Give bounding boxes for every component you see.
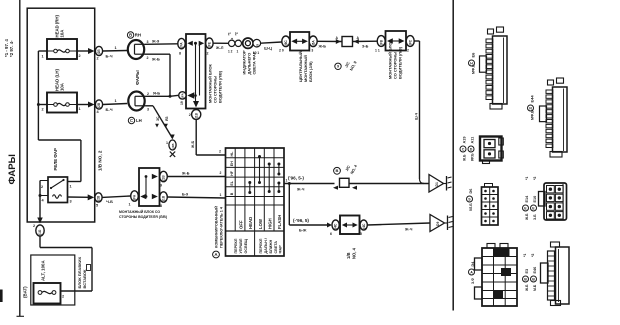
connector 8(FA): [178, 38, 185, 55]
svg-text:Ж.Б: Ж.Б: [525, 284, 529, 292]
svg-text:1/B: 1/B: [346, 252, 351, 259]
connector 20(6C): [279, 36, 290, 53]
high beam indicator lamp: [242, 38, 254, 48]
svg-text:Ж-Б: Ж-Б: [318, 45, 327, 49]
wire 9-1B to switch: [167, 171, 225, 177]
svg-text:(2B: (2B: [171, 143, 175, 149]
svg-text:B: B: [524, 277, 527, 281]
connector 4(2B) LH: [95, 100, 102, 114]
junction block 1/B NO.4: [340, 216, 360, 235]
wire relay to ground bus: [37, 181, 43, 224]
svg-text:2 0: 2 0: [279, 49, 284, 53]
label (B) RH: [127, 32, 141, 38]
svg-text:*2: *2: [235, 32, 239, 35]
connector 2(2B) RH: [95, 46, 102, 60]
svg-text:Б-Ж: Б-Ж: [299, 229, 307, 233]
svg-text:Б-Ч: Б-Ч: [106, 54, 113, 59]
junction block driver side lower: [139, 168, 160, 206]
svg-text:C: C: [130, 118, 133, 123]
svg-text:B: B: [336, 168, 339, 173]
label E44: [528, 95, 535, 120]
svg-text:1: 1: [220, 193, 222, 197]
ground D1: [429, 175, 452, 193]
svg-text:РЕЛЕ ФАР: РЕЛЕ ФАР: [53, 148, 58, 170]
label D6: [467, 189, 474, 211]
connector 1(FA) relay side: [129, 191, 139, 207]
label HEAD (LH) 10A: [55, 68, 65, 91]
svg-text:B: B: [129, 33, 132, 38]
label HEAD (RH) 10A: [55, 14, 65, 37]
svg-text:2: 2: [219, 150, 221, 154]
svg-text:1: 1: [237, 50, 239, 54]
label E14: [523, 177, 530, 221]
svg-text:1: 1: [115, 99, 117, 103]
svg-text:3: 3: [147, 108, 149, 112]
wire to RH bulb: [103, 46, 127, 59]
label E6: [469, 52, 476, 74]
headlight bulb LH: [128, 92, 149, 112]
svg-text:1/B NO, 2: 1/B NO, 2: [98, 150, 103, 171]
svg-text:(FA: (FA: [180, 42, 184, 48]
svg-text:A19: A19: [463, 137, 467, 144]
svg-text:2: 2: [41, 185, 43, 189]
svg-text:9: 9: [160, 184, 162, 188]
svg-text:HIGH: HIGH: [268, 218, 273, 229]
svg-text:2: 2: [33, 224, 35, 228]
svg-text:LH: LH: [136, 118, 142, 123]
svg-text:(2B: (2B: [97, 102, 101, 108]
svg-text:*1: *1: [228, 32, 232, 35]
svg-text:2: 2: [62, 295, 64, 299]
wire fuse bus: [37, 51, 81, 182]
svg-text:Ж-Л: Ж-Л: [215, 46, 224, 50]
fusible link block enclosure: [31, 255, 75, 305]
label E46: [531, 254, 538, 291]
svg-text:1: 1: [129, 203, 131, 207]
svg-text:ДАЛЬН /: ДАЛЬН /: [264, 238, 268, 253]
svg-text:М.Б: М.Б: [533, 284, 537, 291]
svg-text:Ж-Б: Ж-Б: [191, 141, 195, 149]
label A11: [468, 137, 475, 161]
svg-text:D1: D1: [435, 182, 439, 186]
wire to LH bulb: [103, 99, 128, 112]
svg-text:БЛОК (J/B): БЛОК (J/B): [308, 61, 313, 82]
label (BAT): [23, 286, 28, 298]
svg-text:A: A: [470, 270, 473, 274]
svg-text:(6A: (6A: [311, 40, 315, 46]
svg-text:ПЕРЕКЛЮЧАТЕЛЬ 1 4: ПЕРЕКЛЮЧАТЕЛЬ 1 4: [220, 206, 224, 248]
svg-text:E6: E6: [471, 52, 476, 58]
svg-text:(1G: (1G: [38, 229, 42, 235]
wire RH low-beam: [145, 54, 170, 97]
svg-text:HL: HL: [230, 151, 234, 157]
connector pinout E3 E46: [541, 242, 570, 306]
svg-text:СВЕТА ФАР: СВЕТА ФАР: [252, 51, 257, 74]
svg-text:1 1: 1 1: [375, 49, 380, 53]
svg-text:З.Б: З.Б: [533, 214, 537, 220]
connector 19(FA): [179, 92, 186, 105]
right section divider: [452, 0, 454, 311]
svg-text:10A: 10A: [60, 83, 65, 91]
svg-text:(2B: (2B: [97, 195, 101, 201]
label fusible link block: [77, 256, 91, 288]
connector pinout E44: [540, 78, 568, 157]
svg-text:(1B: (1B: [194, 112, 198, 118]
svg-text:5: 5: [96, 204, 98, 208]
connector 6(4C): [327, 220, 339, 236]
footnote *1 *2: [4, 39, 14, 57]
connector pinout A19 A11: [480, 137, 503, 164]
svg-text:D: D: [470, 147, 473, 151]
wire J/B to J/C: [317, 41, 342, 48]
svg-text:МФ.Б: МФ.Б: [531, 110, 535, 120]
svg-text:2: 2: [220, 171, 222, 175]
connector 5(2B) relay out: [95, 193, 102, 208]
svg-text:E10: E10: [533, 196, 537, 203]
fuse HEAD (RH) 10A: [42, 39, 81, 59]
label КОМБИНИРОВАННЫЙ ПЕРЕКЛЮЧАТЕЛЬ: [213, 206, 224, 258]
svg-text:9: 9: [337, 65, 339, 69]
svg-text:(4C: (4C: [362, 223, 366, 229]
svg-text:D6: D6: [469, 189, 473, 194]
fuse HEAD (LH) 10A: [42, 93, 81, 113]
svg-text:NO, 4: NO, 4: [352, 247, 357, 259]
svg-text:Б-9: Б-9: [182, 193, 188, 197]
connector 13(6A): [309, 36, 318, 53]
title ФАРЫ: [7, 154, 18, 184]
svg-text:Ж-Б: Ж-Б: [151, 57, 160, 62]
svg-text:C: C: [462, 147, 465, 151]
wire RH high-beam: [145, 39, 178, 45]
svg-text:(1B: (1B: [162, 195, 166, 201]
connector A(2B): [166, 135, 176, 157]
svg-text:(1B: (1B: [162, 175, 166, 181]
label J/C NO.9: [335, 59, 358, 71]
svg-text:2: 2: [97, 57, 99, 61]
wire to 1FA: [102, 196, 131, 204]
svg-text:Ж-Б: Ж-Б: [181, 172, 190, 176]
wire branch down to 1/B NO.4: [288, 182, 328, 233]
ground D9: [430, 215, 453, 232]
connector pinout E14 E10: [539, 183, 567, 220]
label 1/B NO.2: [98, 150, 103, 171]
svg-text:HEAD: HEAD: [248, 217, 253, 229]
junction connector J/C NO.4: [333, 178, 429, 190]
svg-text:*1: *1: [525, 177, 529, 180]
svg-text:Ж-Ч: Ж-Ч: [296, 188, 305, 192]
svg-text:ALT, 100A: ALT, 100A: [41, 260, 46, 281]
combination switch contact table: [226, 148, 285, 256]
connector 8(1B): [160, 192, 168, 208]
svg-text:E14: E14: [525, 195, 529, 203]
svg-text:3: 3: [147, 40, 149, 44]
junction block passenger side: [386, 31, 407, 51]
svg-text:(4C: (4C: [334, 223, 338, 229]
svg-text:RH: RH: [135, 33, 141, 38]
svg-text:Ш-Ч: Ш-Ч: [415, 112, 419, 120]
svg-text:1: 1: [79, 107, 81, 111]
svg-text:ОСВЕЩ: ОСВЕЩ: [244, 239, 248, 254]
svg-text:('96, 5-): ('96, 5-): [288, 176, 304, 181]
svg-text:A11: A11: [471, 137, 475, 144]
svg-text:(FA: (FA: [133, 194, 137, 200]
wire LH high-beam: [146, 91, 179, 98]
connector 2(1G): [33, 224, 44, 236]
central junction block J/B: [290, 32, 309, 51]
svg-text:8: 8: [160, 204, 162, 208]
connector pinout D6: [482, 184, 499, 226]
label ALT 100A: [41, 260, 46, 281]
connector 1B bottom: [189, 110, 201, 120]
svg-text:Ч-Б: Ч-Б: [106, 199, 113, 204]
svg-text:Ж.Б: Ж.Б: [525, 213, 529, 221]
svg-text:EH: EH: [230, 161, 234, 166]
svg-text:1: 1: [166, 141, 168, 145]
svg-text:1: 1: [70, 185, 72, 189]
svg-text:8: 8: [179, 52, 181, 56]
svg-text:6: 6: [330, 232, 332, 236]
junction connector J/C NO.9: [336, 36, 360, 47]
svg-text:HF: HF: [230, 170, 234, 176]
svg-text:(-'96, 5): (-'96, 5): [293, 218, 309, 223]
svg-text:*2: *2: [531, 254, 535, 257]
label 1/B NO.4: [346, 247, 357, 259]
svg-text:E3: E3: [525, 269, 529, 274]
svg-text:H: H: [470, 61, 473, 65]
svg-text:ФАРЫ: ФАРЫ: [7, 154, 18, 184]
svg-text:5Л.Б: 5Л.Б: [469, 203, 473, 211]
svg-text:БЛИЖН: БЛИЖН: [269, 239, 273, 253]
svg-text:LOW: LOW: [258, 218, 263, 229]
svg-text:2: 2: [79, 54, 81, 58]
svg-text:Ж-Ч: Ж-Ч: [404, 228, 413, 232]
svg-text:Ш-Ц: Ш-Ц: [264, 47, 272, 51]
label D4: [469, 261, 476, 284]
junction block 1/B NO.2 enclosure: [27, 8, 95, 222]
wire 8-1B to switch: [167, 193, 225, 199]
label (C) LH: [128, 117, 141, 123]
junction block driver side (L/B): [186, 34, 206, 109]
label МОНТАЖНЫЙ БЛОК СО СТОРОНЫ ВОДИТЕЛЯ: [119, 210, 167, 219]
svg-text:5: 5: [360, 232, 362, 236]
connector at indicator: [253, 39, 261, 55]
scan smudge bottom-left: [0, 290, 3, 303]
svg-text:(BAT): (BAT): [23, 286, 28, 298]
svg-text:3: 3: [70, 200, 72, 204]
wire to ground D9: [367, 223, 430, 232]
svg-text:Б-Ч: Б-Ч: [106, 107, 113, 112]
svg-text:2: 2: [147, 92, 149, 96]
connector pinout D4: [475, 244, 518, 307]
svg-text:*1: *1: [523, 254, 527, 257]
svg-text:(FC: (FC: [408, 39, 412, 45]
svg-text:(6C: (6C: [284, 40, 288, 46]
label ПЕРЕКЛ УПРАВЛ ОСВЕЩ: [234, 238, 248, 253]
splice *1: [228, 32, 235, 53]
svg-text:(FE: (FE: [208, 42, 212, 47]
label E3: [523, 254, 530, 292]
left margin rule: [17, 0, 25, 316]
svg-text:N: N: [529, 106, 532, 110]
svg-text:2: 2: [147, 56, 149, 60]
svg-text:ВОДИТЕЛЯ (Л/В): ВОДИТЕЛЯ (Л/В): [218, 70, 223, 103]
splice *2: [235, 32, 242, 53]
wire J/C to passenger J/B: [353, 41, 378, 48]
svg-text:*2: *2: [533, 177, 537, 180]
svg-text:ВСТАВОК: ВСТАВОК: [82, 269, 87, 289]
connector pinout E6: [480, 27, 508, 109]
svg-text:(FB: (FB: [379, 39, 383, 45]
svg-text:ЯЗ: ЯЗ: [165, 116, 169, 121]
fusible link ALT 100A: [34, 283, 65, 304]
svg-text:З.Ф: З.Ф: [471, 278, 475, 284]
svg-text:СТОРОНЫ ВОДИТЕЛЯ (Л/В): СТОРОНЫ ВОДИТЕЛЯ (Л/В): [119, 215, 167, 219]
label ЦЕНТРАЛЬНЫЙ МОНТАЖНЫЙ БЛОК (J/B): [298, 51, 313, 82]
label МОНТАЖНЫЙ БЛОК СО СТОРОНЫ (L/B): [388, 40, 403, 79]
connector 2(FC): [406, 36, 414, 53]
svg-text:З-Б: З-Б: [362, 45, 369, 49]
svg-text:OFF: OFF: [238, 220, 243, 229]
wire to fusible link: [40, 236, 92, 291]
wire fuse LH to bulb: [77, 102, 95, 108]
connector 2(FE): [206, 38, 213, 56]
label ФАРЫ bulbs: [135, 70, 140, 85]
svg-text:(FA: (FA: [181, 93, 185, 98]
svg-text:ФАРЫ: ФАРЫ: [135, 70, 140, 85]
svg-text:(9: (9: [255, 44, 259, 47]
svg-text:ПЕРЕКЛ: ПЕРЕКЛ: [259, 238, 263, 253]
relay РЕЛЕ ФАР: [40, 177, 72, 204]
svg-text:ЯР.Б: ЯР.Б: [471, 153, 475, 161]
svg-text:B: B: [532, 277, 535, 281]
svg-text:2: 2: [207, 52, 209, 56]
label МОНТАЖНЫЙ БЛОК СО СТОРОНЫ ВОДИТЕЛЯ (L/B): [208, 64, 223, 103]
svg-text:ВОДИТЕЛЯ (Л/В): ВОДИТЕЛЯ (Л/В): [398, 46, 403, 79]
svg-text:FLASH: FLASH: [277, 215, 282, 229]
svg-text:19: 19: [180, 101, 184, 105]
note (96,5-): [288, 176, 304, 181]
connector 11(FB): [375, 36, 385, 53]
wire 2FE to indicator: [213, 43, 228, 50]
svg-text:2: 2: [407, 49, 409, 53]
label РЕЛЕ ФАР: [53, 148, 58, 170]
wire relay to 1FA: [68, 194, 95, 200]
svg-text:E46: E46: [533, 267, 537, 274]
svg-text:10A: 10A: [60, 30, 65, 38]
svg-text:1: 1: [115, 46, 117, 50]
svg-text:D9: D9: [436, 222, 440, 226]
svg-text:УПРАВЛ: УПРАВЛ: [239, 238, 243, 253]
svg-text:ЗС: ЗС: [156, 116, 160, 121]
svg-text:2: 2: [189, 113, 191, 117]
wire LH low-beam to dimmer: [146, 106, 173, 138]
svg-text:1: 1: [42, 55, 44, 59]
svg-text:E44: E44: [530, 95, 535, 103]
svg-text:СВЕТА: СВЕТА: [274, 241, 278, 254]
svg-text:(2B: (2B: [97, 49, 101, 55]
svg-text:КОМБИНИРОВАННЫЙ: КОМБИНИРОВАННЫЙ: [215, 206, 219, 248]
label A19: [460, 137, 467, 162]
svg-text:Ж-9: Ж-9: [151, 39, 160, 44]
label ИНДИКАТОР ДАЛЬНЕГО СВЕТА ФАР: [242, 50, 257, 74]
svg-text:1 2: 1 2: [228, 50, 233, 54]
wire indicator to central J/B: [261, 42, 282, 51]
svg-text:B: B: [230, 192, 234, 195]
wire 2FC down to ground D1: [414, 41, 424, 184]
svg-text:12: 12: [230, 37, 234, 41]
svg-text:Я-Б: Я-Б: [153, 91, 160, 96]
connector 9(1B): [160, 171, 168, 187]
headlight bulb RH: [128, 40, 149, 60]
svg-text:ПЕРЕКЛ: ПЕРЕКЛ: [234, 238, 238, 253]
connector 4C right: [360, 220, 367, 236]
svg-text:Ж.Б: Ж.Б: [463, 154, 467, 162]
svg-text:*2 97. 4-: *2 97. 4-: [9, 40, 14, 57]
svg-text:EL: EL: [230, 180, 234, 185]
svg-text:1 3: 1 3: [309, 49, 314, 53]
svg-text:МОНТАЖНЫЙ БЛОК СО: МОНТАЖНЫЙ БЛОК СО: [119, 210, 160, 214]
svg-text:2: 2: [42, 108, 44, 112]
label ПЕРЕКЛ ДАЛЬН БЛИЖН СВЕТА ФАР: [259, 238, 283, 253]
label E10: [531, 177, 538, 220]
svg-text:ФАР: ФАР: [279, 245, 283, 254]
label J/C NO.4: [334, 164, 359, 175]
wire switch to J/C NO.4: [284, 179, 335, 192]
wire fuse RH to bulb: [77, 48, 95, 54]
wire high-beam to switch: [191, 119, 226, 155]
